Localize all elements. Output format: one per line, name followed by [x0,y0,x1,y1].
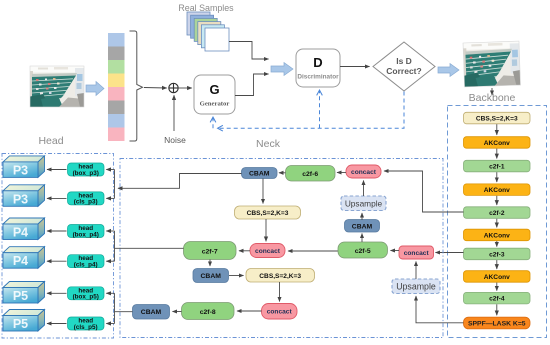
P4 output box b [3,247,45,269]
P4 output box a [3,218,45,240]
generator box G [194,75,235,114]
svg-text:SPPF—LASK K=5: SPPF—LASK K=5 [468,321,526,328]
wire c2f-5 up to CBAM2 [361,234,363,243]
P4 junction connector [106,231,114,261]
head box_p5 [68,287,105,301]
wire box_p3 to P3 [47,169,67,171]
wire c2f-8 to CBAM4 [173,311,182,313]
svg-text:c2f-2: c2f-2 [489,210,505,217]
neck block c2f-7 [184,242,237,260]
wire CBS row2 down to concact bottom [279,282,281,302]
decision diamond Is D Correct [373,42,435,91]
svg-text:Backbone: Backbone [469,92,516,104]
svg-text:c2f-3: c2f-3 [489,252,505,259]
wire cls_p4 to P4 [47,260,67,262]
block arrow photo to feature stack [86,82,104,96]
output factory photo [463,41,520,87]
svg-text:concact: concact [267,309,293,316]
backbone dashed container [448,106,547,338]
wire photo to backbone [491,88,493,95]
wire CBS to AKConv [496,124,498,135]
wire AKConv to c2f-1 [496,149,498,159]
wire c2f-3 to AKConv [496,260,498,269]
backbone block AKConv 3 [464,229,531,241]
head cls_p3 [68,192,105,206]
head cls_p4 [68,255,105,269]
svg-text:D: D [313,55,322,70]
svg-text:Is D: Is D [396,56,412,66]
neck block CBAM4 [133,305,170,320]
backbone block SPPF-LASK [464,317,531,329]
wire c2f-2 to concact row1 [384,171,464,212]
neck block c2f-6 [286,166,336,182]
feature stack segment 2 [108,47,125,61]
neck block concact row1 [346,165,381,178]
P3 output box a [3,156,45,178]
svg-text:CBS,S=2,K=3: CBS,S=2,K=3 [259,273,301,280]
wire c2f-6 to CBAM1 [279,172,286,174]
svg-text:P5: P5 [13,317,28,331]
backbone block AKConv 4 [464,271,531,283]
wire AKConv to c2f-3 [496,241,498,247]
wire concact1 to c2f-6 [337,172,346,174]
feature stack segment 6 [108,101,125,115]
wire c2f-7 to P4 heads [115,247,184,249]
svg-text:Noise: Noise [164,135,186,145]
svg-text:c2f-4: c2f-4 [489,296,505,303]
wire c2f-1 to AKConv [496,172,498,182]
wire c2f-3 to concact row2 [436,252,464,254]
wire CBAM4 to P5 heads [115,311,133,313]
neck block upsample2 [392,279,440,294]
P3 junction connector [106,170,114,199]
discriminator box D [296,49,340,87]
wire c2f-7 down to CBAM3 [209,260,211,267]
wire D to decision diamond [340,66,370,68]
svg-text:concact: concact [351,169,377,176]
feedback dashed wire up into G [212,118,214,129]
svg-text:G: G [209,82,219,97]
wire SPPF to upsample2 [416,296,464,323]
neck block CBAM3 [193,269,229,283]
feedback dashed wire up into D [319,91,321,129]
block arrow into discriminator [271,63,293,76]
svg-text:P3: P3 [13,192,28,206]
backbone block CBS,S=2,K=3 [464,112,531,124]
neck block CBS row1 [235,206,301,219]
svg-text:c2f-7: c2f-7 [202,249,218,256]
svg-text:P4: P4 [13,226,28,240]
svg-text:Head: Head [38,135,63,147]
backbone block c2f-3 [464,248,531,260]
neck block concact bottom [262,304,298,320]
svg-text:P3: P3 [13,163,28,177]
svg-text:Upsample: Upsample [396,282,436,292]
wire box_p5 to P5 [47,292,67,294]
feature stack segment 4 [108,74,125,88]
svg-text:Discriminator: Discriminator [297,74,339,81]
neck block concact row2 right [399,246,434,259]
feature stack segment 1 [108,33,125,47]
neck block concact row2 [250,244,285,258]
head box_p3 [68,163,105,177]
svg-text:concact: concact [255,248,281,255]
backbone block AKConv 1 [464,137,531,149]
svg-text:c2f-8: c2f-8 [200,309,216,316]
svg-text:c2f-1: c2f-1 [489,164,505,171]
wire G to D input [235,74,269,96]
svg-text:CBAM: CBAM [249,171,270,178]
svg-text:Real Samples: Real Samples [178,3,234,13]
svg-text:CBAM: CBAM [352,223,373,230]
svg-text:(cls_p5): (cls_p5) [74,324,98,331]
svg-text:CBS,S=2,K=3: CBS,S=2,K=3 [247,210,289,217]
svg-text:P4: P4 [13,254,28,268]
svg-text:P5: P5 [13,289,28,303]
P5 output box a [3,282,45,304]
neck dashed container [120,159,443,338]
block arrow diamond to output photo [438,64,459,77]
wire cls_p3 to P3 [47,197,67,199]
noise arrow [173,95,175,131]
P3 output box b [3,185,45,207]
head box_p4 [68,225,105,239]
neck block CBAM2 [345,220,380,233]
wire CBAM3 to CBS row2 [229,275,244,277]
svg-text:Generator: Generator [200,101,230,108]
wire concact row2 to c2f-7 [239,250,250,252]
svg-text:AKConv: AKConv [484,187,510,194]
wire brace to oplus [144,87,167,90]
wire upsample1 up to concact1 [363,181,365,197]
wire c2f-4 to SPPF [496,304,498,315]
P5 junction connector [106,293,114,323]
feature stack segment 5 [108,87,125,101]
wire CBAM2 up to upsample1 [361,213,363,220]
wire real samples to D input [229,42,269,60]
wire AKConv to c2f-4 [496,283,498,291]
svg-text:AKConv: AKConv [484,274,510,281]
svg-text:c2f-6: c2f-6 [302,171,318,178]
svg-text:Neck: Neck [256,138,281,150]
svg-text:AKConv: AKConv [484,140,510,147]
neck block CBAM row1 [242,168,278,179]
head dashed container [2,154,114,339]
real samples stack [187,12,229,51]
backbone block AKConv 2 [464,184,531,196]
curly brace [130,31,143,141]
oplus noise adder [169,83,178,92]
svg-text:(cls_p3): (cls_p3) [74,199,98,206]
svg-text:(cls_p4): (cls_p4) [74,262,98,269]
wire AKConv to c2f-2 [496,196,498,205]
svg-text:CBAM: CBAM [141,309,162,316]
wire concact right to c2f-5 [391,250,400,252]
feature stack segment 3 [108,60,125,74]
svg-text:(box_p5): (box_p5) [73,294,99,301]
head cls_p5 [68,317,105,331]
svg-text:CBAM: CBAM [201,273,222,280]
input factory photo [30,66,84,107]
backbone block c2f-1 [464,160,531,172]
feature stack segment 7 [108,114,125,128]
neck block upsample1 [341,196,386,211]
wire CBAM1 to P3 heads [118,174,242,189]
P5 output box b [3,310,45,332]
neck block c2f-5 [338,242,388,258]
wire CBAM1 down to CBS row1 [262,179,264,204]
wire concact bottom to c2f-8 [237,310,262,312]
wire c2f-2 to AKConv [496,219,498,228]
svg-text:AKConv: AKConv [484,233,510,240]
neck block c2f-8 [182,303,235,320]
svg-text:concact: concact [404,250,430,257]
feedback dashed wire diamond to G and D [218,92,404,129]
wire upsample2 up to concact right [415,262,417,280]
neck block CBS row2 [246,269,315,283]
svg-text:CBS,S=2,K=3: CBS,S=2,K=3 [476,116,518,123]
wire oplus to G [179,87,192,89]
backbone block c2f-4 [464,292,531,304]
backbone block c2f-2 [464,207,531,219]
wire c2f-5 to concact row2 [288,250,338,252]
wire cls_p5 to P5 [47,323,67,325]
svg-text:(box_p3): (box_p3) [73,170,99,177]
wire box_p4 to P4 [47,230,67,232]
svg-text:Correct?: Correct? [386,66,421,76]
wire CBS row1 down to concact row2 [265,219,267,241]
svg-text:c2f-5: c2f-5 [355,248,371,255]
svg-text:(box_p4): (box_p4) [73,231,99,238]
svg-text:Upsample: Upsample [345,198,383,208]
feature stack segment 8 [108,128,125,142]
